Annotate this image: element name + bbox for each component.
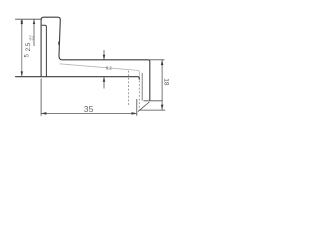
bottom line of profile — [15, 77, 139, 80]
dim 35 left arrow — [41, 112, 46, 115]
extension line top-left — [15, 18, 41, 20]
extension line bottom right — [140, 109, 166, 111]
extension line 35 left — [40, 79, 42, 116]
frame bottom edge — [144, 100, 163, 102]
dim B bottom arrow — [21, 71, 23, 76]
svg-text:6.2: 6.2 — [106, 66, 112, 71]
dim right 18 line — [161, 60, 163, 110]
svg-text:-0.1: -0.1 — [30, 36, 34, 41]
dim right 18 bottom arrow — [161, 105, 164, 110]
dim A line short with up arrow — [33, 19, 35, 46]
faint sloped flange inner line — [60, 64, 140, 77]
phantom frame mid vertical — [141, 73, 143, 101]
hook lip ledge — [42, 25, 47, 76]
small dim 6.2 upper segment — [103, 50, 105, 60]
phantom dashed edge below flange end — [138, 81, 140, 110]
svg-text:2.5: 2.5 — [26, 42, 32, 51]
dim 35 line — [41, 112, 137, 114]
small dim lower segment — [103, 77, 105, 89]
dim B lip arrows blob — [21, 19, 23, 24]
dim right 18 top arrow — [161, 60, 164, 65]
phantom dashed inner edge — [127, 71, 129, 107]
nub on right wall — [57, 42, 60, 45]
break diagonal — [138, 102, 149, 112]
extension line right of flange top — [150, 59, 165, 61]
dim B line — [21, 19, 23, 76]
extension line 35 right — [136, 99, 138, 116]
dim 35 right arrow — [132, 112, 137, 115]
svg-text:18: 18 — [163, 78, 170, 86]
svg-text:5: 5 — [24, 54, 31, 58]
svg-text:35: 35 — [84, 104, 94, 114]
profile outer contour — [41, 17, 150, 101]
